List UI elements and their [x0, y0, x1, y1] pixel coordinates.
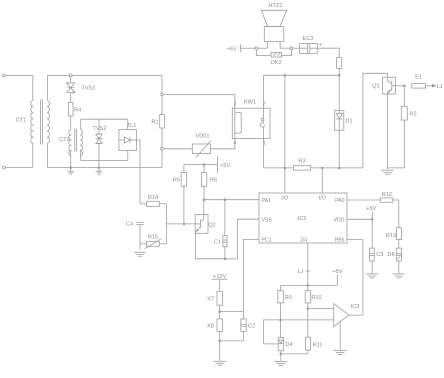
- wire Q1 emitter to ground: [386, 94, 388, 169]
- wire A to buzzer leg1: [258, 47, 268, 49]
- node circle B: [290, 47, 293, 50]
- capacitor C1: [223, 200, 227, 259]
- wire TVS2 top: [98, 119, 100, 134]
- wire Q1 collector loop: [363, 73, 388, 168]
- node on top rail (TVS1 tap): [69, 74, 72, 77]
- svg-text:R10: R10: [311, 295, 321, 301]
- wire ZL1 top: [127, 119, 129, 129]
- wire R1 column top: [161, 75, 163, 93]
- wire terminal to CT1 primary top: [5, 74, 33, 76]
- transistor Q2: [195, 200, 208, 234]
- ground under D4: [275, 361, 288, 365]
- wire bottom rail: [47, 167, 162, 169]
- thermistor R15: [140, 239, 166, 249]
- ground under X8: [214, 361, 227, 365]
- resistor R6: [201, 165, 206, 200]
- wire VDD to C3: [371, 219, 373, 248]
- junction R9 column/lower input: [280, 319, 282, 321]
- svg-text:C1: C1: [214, 240, 221, 246]
- svg-text:PB6: PB6: [335, 238, 345, 244]
- power +5V lower: [336, 274, 338, 285]
- wire R3 net: [264, 167, 294, 169]
- wire R1 node to pin3: [163, 93, 235, 95]
- buzzer HTZ1: [261, 10, 286, 48]
- svg-text:LJ: LJ: [298, 269, 304, 275]
- svg-text:X8: X8: [207, 324, 214, 330]
- junction CT2/rail: [70, 167, 72, 169]
- wire I/O2 column: [321, 168, 323, 193]
- IC U2 (IC2): [259, 193, 347, 243]
- wire R2 bottom to ground line: [387, 167, 404, 169]
- wire PC1 to C2 column: [243, 239, 259, 311]
- wire D4 bottom: [280, 351, 282, 361]
- wire VSS riser: [237, 219, 259, 259]
- wire column to R3 net and IC2 I/O pin: [284, 75, 286, 193]
- relay KW1: [232, 108, 270, 138]
- resistor R13: [397, 228, 402, 248]
- junction C1 top: [224, 199, 226, 201]
- terminal input bottom-left: [2, 166, 5, 169]
- svg-text:R12: R12: [382, 192, 392, 198]
- wire IC3 output to PB6 riser: [347, 240, 363, 316]
- capacitor C3: [369, 248, 374, 273]
- svg-text:C2: C2: [248, 324, 255, 330]
- net label LJ tick: [306, 270, 310, 272]
- svg-text:D1: D1: [345, 119, 352, 125]
- junction R5 bottom on base wire: [183, 223, 185, 225]
- svg-text:+5V: +5V: [220, 163, 230, 169]
- wire lower +5V rail: [281, 284, 338, 286]
- wire pin2 riser: [263, 75, 265, 108]
- svg-text:TVS2: TVS2: [93, 126, 107, 132]
- svg-text:EC3: EC3: [303, 36, 314, 42]
- wire VD01 left to R1 node: [163, 148, 192, 150]
- wire pin4 to VD01: [210, 139, 234, 149]
- svg-text:X7: X7: [207, 296, 214, 302]
- svg-text:DK2: DK2: [271, 60, 282, 66]
- wire R3 to Q1 loop: [311, 167, 363, 169]
- wire D4 pin down (LJ net): [307, 243, 309, 285]
- resistor R9: [278, 285, 284, 337]
- junction column I/O1 top: [284, 74, 286, 76]
- svg-text:DK: DK: [387, 252, 395, 258]
- svg-text:PC1: PC1: [262, 238, 272, 244]
- svg-text:R15: R15: [148, 235, 158, 241]
- resistor R5: [181, 165, 186, 224]
- TVS TVS2: [96, 134, 103, 144]
- wire terminal to CT1 primary bottom: [5, 167, 33, 169]
- junction Q1 base node: [403, 85, 405, 87]
- zener ZL1: [119, 130, 136, 151]
- ground under Q1: [381, 170, 394, 174]
- wire jog to C2 top: [220, 311, 244, 313]
- svg-text:+5V: +5V: [366, 206, 376, 212]
- resistor R1: [160, 96, 165, 148]
- node circle A: [255, 47, 258, 50]
- varistor VD01: [192, 141, 211, 158]
- svg-text:R14: R14: [148, 195, 158, 201]
- junction LJ/rail: [307, 285, 309, 287]
- svg-text:HTZ1: HTZ1: [269, 3, 283, 9]
- svg-text:VSS: VSS: [262, 217, 273, 223]
- transformer CT1: [31, 75, 50, 167]
- arrow LJ output: [432, 85, 435, 88]
- wire op-amp lower input loop to D4: [264, 320, 334, 344]
- wire TVS2 to rail: [98, 160, 100, 167]
- wire buzzer leg2 to B: [280, 47, 290, 49]
- svg-text:C4: C4: [126, 222, 133, 228]
- svg-text:2: 2: [263, 101, 266, 107]
- power +5V buzzer: [241, 44, 256, 52]
- wire ZL1 output right and down: [136, 140, 140, 204]
- svg-text:PA1: PA1: [262, 198, 272, 204]
- wire IC3 ground tap: [339, 322, 341, 350]
- wire KW1 pin2 rail: [264, 74, 340, 76]
- op-amp IC3: [334, 304, 349, 327]
- svg-text:IC3: IC3: [351, 304, 360, 310]
- capacitor C4: [136, 222, 144, 249]
- svg-text:R4: R4: [74, 108, 81, 114]
- wire top rail CT1 secondary to R1 column: [47, 74, 162, 76]
- diode D1: [335, 110, 344, 130]
- junction D4/R11 bottom: [280, 353, 282, 355]
- wire PA1 to IC2: [204, 199, 259, 201]
- wire node to TVS1: [70, 77, 72, 83]
- junction X7/X8 node: [219, 311, 221, 313]
- junction R10/op-amp input: [307, 308, 309, 310]
- capacitor DK: [396, 248, 401, 273]
- svg-text:I/O: I/O: [319, 196, 326, 202]
- resistor R4: [68, 103, 73, 117]
- wire R4 to CT2: [70, 116, 72, 130]
- power +5V left: [184, 156, 218, 173]
- wire EC3 to resistor chain: [317, 48, 339, 57]
- ground chassis mid: [96, 168, 103, 175]
- node circle R1 top: [161, 93, 164, 96]
- svg-text:E1: E1: [415, 75, 422, 81]
- switch DK2 bypass: [256, 50, 291, 58]
- diode D4: [278, 338, 283, 351]
- resistor E1: [412, 84, 433, 89]
- svg-text:VDD: VDD: [334, 217, 345, 223]
- junction C1 bottom: [224, 258, 226, 260]
- wire R11 bottom link: [281, 353, 308, 355]
- junction X8/C2 bottom: [219, 340, 221, 342]
- wire CT2 primary bottom to rail: [70, 151, 72, 168]
- svg-text:R9: R9: [285, 295, 292, 301]
- ground under C4: [134, 252, 146, 256]
- resistor R12: [380, 198, 399, 202]
- wire CT2 secondary top to loop top edge: [80, 119, 82, 130]
- svg-text:R3: R3: [298, 159, 305, 165]
- resistor unlabeled: [337, 58, 342, 69]
- svg-text:R11: R11: [313, 342, 323, 348]
- wire ZL1 bottom to loop bottom: [127, 150, 129, 160]
- svg-text:R2: R2: [409, 111, 416, 117]
- junction D1/R3 net: [338, 167, 340, 169]
- node circle R1 bottom: [161, 148, 164, 151]
- svg-text:PA0: PA0: [335, 198, 345, 204]
- ground chassis left: [67, 168, 74, 175]
- ground under DK: [393, 274, 405, 278]
- wire C2 bottom to X8 column: [220, 340, 244, 342]
- resistor X8: [217, 319, 222, 332]
- TVS TVS1: [66, 82, 75, 93]
- svg-text:C3: C3: [376, 252, 383, 258]
- wire resistor to D1: [338, 68, 340, 110]
- wire base feed to Q2: [166, 223, 195, 225]
- svg-text:LJ: LJ: [437, 84, 443, 90]
- wire X7 to X8: [219, 305, 221, 319]
- wire Q2 emitter down and right: [196, 233, 238, 258]
- resistor R11: [306, 337, 311, 354]
- resistor R3: [293, 166, 310, 170]
- power +12V: [212, 279, 228, 291]
- svg-text:+5V: +5V: [226, 46, 236, 52]
- svg-text:Q1: Q1: [372, 84, 379, 90]
- ground under C3: [366, 274, 378, 278]
- terminal input top-left: [2, 74, 5, 77]
- wire loop bottom edge: [81, 159, 128, 161]
- svg-text:D4: D4: [285, 342, 292, 348]
- wire op-amp upper input: [308, 308, 334, 310]
- wire TVS1 to R4: [70, 93, 72, 103]
- junction VDD node: [371, 218, 373, 220]
- transformer CT2: [69, 129, 83, 156]
- wire pin3 riser: [234, 94, 236, 108]
- wire R1 node to rail: [161, 150, 163, 167]
- capacitor EC3: [300, 44, 318, 54]
- svg-text:CT1: CT1: [16, 118, 27, 124]
- resistor R10: [305, 285, 311, 337]
- power +5V VDD: [371, 211, 373, 219]
- svg-text:KW1: KW1: [244, 100, 256, 106]
- wire CT2 secondary bottom to loop bottom edge: [80, 151, 82, 161]
- svg-text:R6: R6: [210, 178, 217, 184]
- resistor R2: [401, 86, 407, 168]
- transistor Q1: [383, 77, 405, 94]
- junction I/O2 tap: [321, 167, 323, 169]
- capacitor C2: [241, 312, 246, 341]
- svg-text:I/O: I/O: [281, 196, 288, 202]
- wire D1 to R3 net: [338, 130, 340, 168]
- svg-text:R1: R1: [151, 119, 158, 125]
- wire pin1 down: [263, 139, 265, 168]
- resistor X7: [217, 291, 222, 305]
- junction PA1 node: [203, 199, 205, 201]
- svg-text:+: +: [319, 43, 322, 49]
- svg-text:TVS1: TVS1: [82, 86, 96, 92]
- svg-text:+12V: +12V: [213, 274, 226, 280]
- junction R6 top: [203, 164, 205, 166]
- svg-text:CT2: CT2: [59, 137, 70, 143]
- resistor R14: [140, 201, 166, 206]
- wire VDD node: [347, 218, 372, 220]
- wire PA0 to R12: [347, 199, 380, 201]
- svg-text:D4: D4: [300, 238, 307, 244]
- svg-text:+5V: +5V: [332, 269, 342, 275]
- svg-text:VD01: VD01: [196, 133, 210, 139]
- junction chain/pin2 wire: [338, 74, 340, 76]
- wire B to EC3: [293, 47, 300, 49]
- svg-text:R13: R13: [386, 233, 396, 239]
- svg-text:IC2: IC2: [298, 216, 307, 222]
- wire X8 bottom jog: [219, 331, 221, 360]
- wire R12 to R13: [398, 200, 400, 228]
- junction R3 net at column: [284, 167, 286, 169]
- svg-text:ZL1: ZL1: [127, 123, 137, 129]
- wire loop top edge: [81, 118, 128, 120]
- ground under IC3: [334, 351, 347, 355]
- wire TVS2 bottom to loop bottom: [98, 144, 100, 161]
- svg-text:R5: R5: [173, 178, 180, 184]
- junction TVS2/rail: [98, 167, 100, 169]
- wire R14-R15 right link: [165, 204, 167, 244]
- svg-text:Q2: Q2: [208, 222, 215, 228]
